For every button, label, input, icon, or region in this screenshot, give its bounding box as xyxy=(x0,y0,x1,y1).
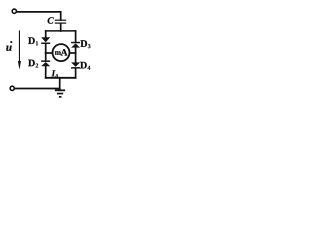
wire meter stub left xyxy=(46,52,53,54)
wire bottom rail xyxy=(15,88,60,90)
wire capacitor to bridge top xyxy=(60,24,62,31)
junction ground tee xyxy=(59,88,61,90)
label meter text A xyxy=(61,49,68,55)
ground bar 3 xyxy=(59,96,62,98)
diode D3 triangle (points up) xyxy=(71,43,80,47)
wire left node to D2 xyxy=(45,53,47,61)
diode D2 triangle (points up) xyxy=(41,62,50,66)
ground bar 1 xyxy=(55,89,65,91)
diode D2 cathode bar xyxy=(41,60,50,62)
wire D3 to right node xyxy=(75,47,77,53)
diode D1 cathode bar xyxy=(41,43,50,45)
capacitor C bottom plate xyxy=(55,22,65,24)
wire top horizontal xyxy=(17,11,61,13)
wire ground stem xyxy=(59,78,61,90)
wire left column upper xyxy=(45,31,47,38)
wire D2 to bridge bottom xyxy=(45,66,47,78)
ground bar 2 xyxy=(57,93,63,95)
diode D1 triangle (points down) xyxy=(41,37,50,42)
wire D1 to left node xyxy=(45,44,47,53)
wire D4 to bridge bottom xyxy=(75,69,77,78)
label current I subscript A xyxy=(55,74,59,78)
label C xyxy=(48,17,54,23)
terminal bottom-left xyxy=(10,86,14,90)
label D2 "D" xyxy=(28,60,35,67)
wire right column upper xyxy=(75,31,77,42)
label D3 subscript 3 xyxy=(88,44,91,48)
label voltage u dot accent xyxy=(10,41,12,43)
label D4 subscript 4 xyxy=(87,66,90,70)
label D1 subscript 1 xyxy=(36,41,38,45)
voltage arrowhead xyxy=(18,61,21,70)
label D1 "D" xyxy=(28,37,35,44)
diode D4 cathode bar xyxy=(71,67,80,69)
terminal top-left xyxy=(12,9,16,13)
label current I xyxy=(52,70,56,76)
label D3 "D" xyxy=(80,40,87,47)
junction cap-bridge xyxy=(60,30,62,32)
diode D3 cathode bar xyxy=(71,42,80,44)
wire down to capacitor xyxy=(60,12,62,20)
label voltage u xyxy=(6,46,11,51)
capacitor C top plate xyxy=(55,19,65,21)
label D4 "D" xyxy=(80,62,87,69)
wire right node to D4 xyxy=(75,53,77,63)
label D2 subscript 2 xyxy=(36,64,38,68)
wire bridge top xyxy=(46,30,76,32)
wire meter stub right xyxy=(70,52,76,54)
diode D4 triangle (points down) xyxy=(71,62,80,67)
label meter text m xyxy=(55,51,61,55)
wire bridge bottom xyxy=(46,77,76,79)
meter mA circle xyxy=(53,44,70,61)
voltage arrow shaft xyxy=(19,30,20,62)
